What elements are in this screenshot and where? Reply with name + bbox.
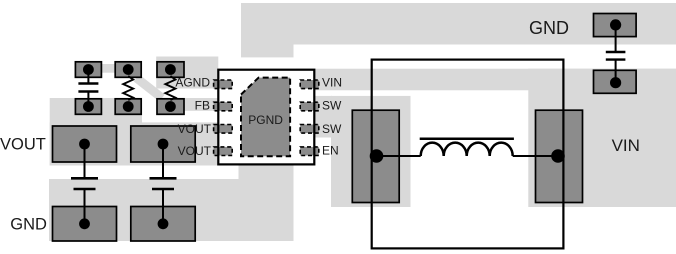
capacitor C4 bottom stem	[615, 60, 617, 83]
svg-text:GND: GND	[529, 18, 569, 38]
PGND thermal pad	[241, 78, 290, 157]
svg-text:AGND: AGND	[175, 76, 210, 90]
wire inductor right	[513, 155, 558, 157]
capacitor C3 plate 2	[152, 188, 174, 191]
capacitor C2 plate 2	[74, 188, 96, 191]
capacitor C3 plate 1	[150, 177, 177, 180]
pin 5 EN pad	[300, 147, 319, 156]
pad R2 top	[157, 62, 184, 78]
pad L1 left	[352, 110, 399, 202]
svg-text:VOUT: VOUT	[178, 144, 212, 158]
pin 8 VIN pad	[300, 80, 319, 89]
pad C4 bottom	[594, 70, 637, 93]
svg-text:VOUT: VOUT	[178, 122, 212, 136]
via R2 bottom	[165, 101, 176, 112]
copper pour: top plane deep part above IC	[241, 3, 294, 57]
inductor L1 bar	[420, 137, 514, 140]
via C3 bottom	[158, 218, 169, 229]
pin 1 AGND pad	[214, 80, 233, 89]
pad C2 top	[53, 126, 117, 162]
via C1 bottom	[83, 101, 94, 112]
copper pour: left VOUT plane lower part	[50, 122, 219, 165]
svg-text:FB: FB	[195, 98, 210, 112]
capacitor C1 bottom stem	[87, 92, 89, 107]
copper pour: VIN band through inductor area	[295, 69, 676, 91]
wire inductor left	[377, 155, 421, 157]
pad C1 bottom	[75, 99, 101, 115]
capacitor C2 bottom stem	[84, 189, 86, 224]
copper pour: SW column around left inductor pad	[331, 96, 411, 207]
capacitor C4 plate 1	[606, 51, 626, 53]
svg-text:VIN: VIN	[322, 76, 342, 90]
svg-text:SW: SW	[322, 122, 342, 136]
pin 2 FB pad	[214, 102, 233, 111]
copper pour: PGND area under IC	[239, 164, 294, 179]
via C2 top	[79, 139, 90, 150]
via R1 bottom	[123, 101, 134, 112]
capacitor C4 top stem	[615, 25, 617, 52]
pin 6 SW pad	[300, 125, 319, 134]
svg-text:VIN: VIN	[612, 136, 640, 155]
resistor R2 zigzag	[165, 76, 175, 100]
pad R1 bottom	[115, 99, 141, 115]
capacitor C4 plate 2	[606, 58, 626, 60]
pin 3 VOUT pad	[214, 125, 233, 134]
via R2 top	[165, 64, 176, 75]
capacitor C2 top stem	[84, 144, 86, 178]
pin 7 SW pad	[300, 102, 319, 111]
svg-text:VOUT: VOUT	[0, 136, 46, 154]
pin 4 VOUT pad	[214, 147, 233, 156]
pad C4 top	[594, 14, 637, 37]
capacitor C3 bottom stem	[162, 189, 164, 224]
copper pour: left VOUT plane upper part	[50, 98, 142, 166]
wire trace diagonal R2 top to R3 bottom	[137, 78, 163, 98]
via C1 top	[83, 64, 94, 75]
via L1 right	[551, 149, 565, 163]
capacitor C1 top stem	[87, 70, 89, 84]
pad R2 bottom	[157, 99, 184, 115]
trace: AGND finger	[156, 57, 218, 89]
pad C3 top	[131, 126, 195, 162]
pad R1 top	[115, 62, 141, 78]
svg-text:PGND: PGND	[248, 113, 283, 127]
inductor component outline	[372, 60, 564, 249]
wire trace between C and R top pads	[101, 64, 116, 73]
via C2 bottom	[79, 218, 90, 229]
op IC U1 body fill	[218, 70, 314, 165]
svg-text:EN: EN	[322, 144, 339, 158]
via C4 top	[610, 19, 621, 30]
via L1 left	[370, 149, 384, 163]
svg-text:GND: GND	[10, 215, 47, 233]
via C3 top	[158, 139, 169, 150]
trace: FB finger	[157, 98, 218, 111]
capacitor C1 plate 1	[78, 82, 98, 84]
via R1 top	[123, 64, 134, 75]
capacitor C3 top stem	[162, 144, 164, 178]
inductor L1 coil	[421, 143, 513, 156]
copper pour: right VIN region	[528, 69, 676, 207]
copper pour: top input/ground plane	[241, 3, 676, 45]
pad C1 top	[75, 62, 101, 78]
capacitor C1 plate 2	[78, 90, 98, 92]
copper pour: SW block at pins	[295, 96, 332, 138]
resistor R1 zigzag	[123, 76, 133, 100]
svg-text:SW: SW	[322, 98, 342, 112]
pad L1 right	[536, 110, 583, 202]
via C4 bottom	[610, 77, 621, 88]
op IC U1 outline	[218, 70, 314, 165]
pad C2 bottom	[53, 207, 117, 242]
copper pour: bottom GND plane	[49, 179, 294, 241]
pad C3 bottom	[131, 207, 195, 242]
capacitor C2 plate 1	[71, 177, 98, 180]
